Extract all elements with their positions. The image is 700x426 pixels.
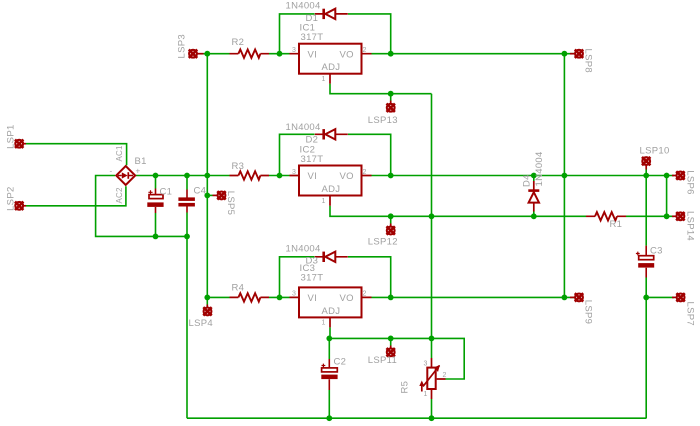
pad LSP14 bbox=[672, 212, 685, 220]
svg-text:-: - bbox=[110, 167, 113, 176]
svg-text:LSP10: LSP10 bbox=[640, 146, 670, 157]
svg-text:C2: C2 bbox=[334, 357, 347, 368]
svg-text:C4: C4 bbox=[194, 186, 207, 197]
pad LSP8 bbox=[570, 50, 583, 58]
svg-text:2: 2 bbox=[363, 47, 367, 54]
wire LSP3 row to R2 bbox=[204, 53, 230, 55]
capacitor C1 bbox=[147, 189, 163, 214]
wire C2 vertical bbox=[328, 338, 330, 418]
capacitor C3 bbox=[636, 246, 654, 278]
wire ground bottom rail bbox=[187, 417, 646, 419]
wire LSP1 to bridge AC1 top bbox=[26, 144, 127, 166]
svg-text:1N4004: 1N4004 bbox=[286, 244, 321, 255]
potentiometer R5 bbox=[419, 358, 445, 399]
svg-text:ADJ: ADJ bbox=[322, 184, 341, 195]
svg-text:VO: VO bbox=[340, 49, 354, 60]
svg-text:LSP9: LSP9 bbox=[583, 300, 594, 324]
svg-text:LSP3: LSP3 bbox=[177, 34, 188, 58]
diode D4 vertical bbox=[528, 181, 539, 212]
IC2 pin texts bbox=[292, 169, 367, 205]
wire C3 LSP10 vertical bbox=[645, 170, 647, 419]
svg-text:1N4004: 1N4004 bbox=[286, 122, 321, 133]
pad LSP2 bbox=[15, 202, 26, 210]
svg-text:VI: VI bbox=[308, 293, 318, 304]
svg-text:LSP12: LSP12 bbox=[368, 236, 398, 247]
svg-text:AC1: AC1 bbox=[115, 145, 124, 162]
wire output to R1 vertical x=666 bbox=[666, 176, 668, 217]
IC3 pin texts bbox=[292, 291, 367, 327]
svg-text:VO: VO bbox=[340, 293, 354, 304]
pad LSP12 bbox=[387, 224, 395, 235]
pad LSP1 bbox=[15, 140, 26, 148]
svg-text:1: 1 bbox=[424, 391, 428, 398]
pad LSP3 bbox=[189, 50, 204, 58]
svg-text:3: 3 bbox=[292, 169, 296, 176]
svg-text:LSP8: LSP8 bbox=[583, 49, 594, 73]
svg-text:VI: VI bbox=[308, 171, 318, 182]
op-amp regulator IC2 317T bbox=[290, 166, 372, 206]
svg-text:D4: D4 bbox=[522, 174, 533, 187]
svg-text:1: 1 bbox=[322, 198, 326, 205]
junction dot ADJ1/LSP13 bbox=[388, 91, 394, 97]
pad LSP9 bbox=[570, 293, 583, 301]
svg-text:3: 3 bbox=[424, 361, 428, 368]
pad LSP10 bbox=[642, 157, 650, 170]
wire D4 vertical bbox=[533, 176, 535, 217]
junction dots ADJ3 row bbox=[326, 336, 434, 342]
R5 pin numbers bbox=[424, 361, 447, 399]
pad LSP5 bbox=[213, 191, 226, 199]
svg-text:LSP1: LSP1 bbox=[6, 124, 17, 148]
pad LSP4 bbox=[203, 305, 211, 316]
svg-text:3: 3 bbox=[292, 47, 296, 54]
svg-text:LSP7: LSP7 bbox=[685, 302, 696, 326]
svg-text:LSP6: LSP6 bbox=[685, 170, 696, 194]
svg-text:C1: C1 bbox=[160, 187, 173, 198]
op-amp regulator IC1 317T bbox=[290, 44, 372, 84]
wire R4 row to IC3 VI bbox=[207, 296, 289, 298]
wire LSP4 stub bbox=[206, 297, 208, 304]
wire IC2 ADJ row bbox=[330, 206, 586, 217]
wire LSP12 stub bbox=[390, 216, 392, 223]
diode D1 bbox=[315, 9, 348, 19]
svg-text:VO: VO bbox=[340, 171, 354, 182]
svg-text:VI: VI bbox=[308, 49, 318, 60]
wire R5 bottom to ground rail bbox=[431, 399, 433, 418]
wire bridge minus to ground rail bbox=[96, 176, 187, 237]
svg-text:1N4004: 1N4004 bbox=[534, 151, 545, 186]
svg-text:R1: R1 bbox=[610, 219, 623, 230]
wire C1 vertical bbox=[155, 176, 157, 237]
svg-text:LSP14: LSP14 bbox=[685, 211, 696, 241]
svg-text:1: 1 bbox=[322, 76, 326, 83]
svg-text:B1: B1 bbox=[135, 156, 147, 167]
pad LSP7 bbox=[672, 293, 685, 301]
pad LSP6 bbox=[672, 171, 685, 179]
wire VI vertical bus x=207 bbox=[206, 54, 208, 298]
wire LSP13 stub bbox=[390, 94, 392, 101]
svg-text:R5: R5 bbox=[400, 381, 411, 394]
capacitor C4 bbox=[178, 190, 195, 213]
op-amp regulator IC3 317T bbox=[290, 287, 372, 327]
wire R2 to IC1 VI bbox=[269, 53, 290, 55]
capacitor C2 bbox=[321, 359, 337, 390]
wire D2 loop bbox=[280, 134, 391, 175]
wire ADJ bus vertical x=431 bbox=[431, 94, 433, 358]
diode D3 bbox=[315, 252, 348, 262]
svg-text:LSP2: LSP2 bbox=[6, 186, 17, 210]
svg-text:LSP11: LSP11 bbox=[368, 355, 397, 366]
wire LSP11 stub bbox=[390, 338, 392, 345]
svg-text:317T: 317T bbox=[301, 154, 324, 165]
resistor R3 bbox=[230, 171, 270, 179]
junction dots ADJ2 row bbox=[388, 213, 670, 219]
svg-text:ADJ: ADJ bbox=[322, 62, 341, 73]
pad LSP13 bbox=[387, 101, 395, 112]
svg-text:1: 1 bbox=[322, 320, 326, 327]
wire IC3 ADJ row bbox=[329, 327, 464, 379]
svg-text:1N4004: 1N4004 bbox=[286, 1, 321, 12]
svg-text:C3: C3 bbox=[650, 246, 663, 257]
wire IC2 VO row to LSP6 bbox=[372, 175, 675, 177]
IC1 pin texts bbox=[292, 47, 367, 83]
bridge rectifier B1 bbox=[116, 166, 135, 185]
svg-text:ADJ: ADJ bbox=[322, 306, 341, 317]
svg-text:LSP5: LSP5 bbox=[225, 191, 236, 215]
pad LSP11 bbox=[387, 346, 395, 357]
wire output vertical x=564 bbox=[563, 54, 565, 298]
svg-text:2: 2 bbox=[363, 169, 367, 176]
svg-text:2: 2 bbox=[363, 291, 367, 298]
junction dots row3 bbox=[204, 295, 649, 301]
svg-text:R4: R4 bbox=[232, 283, 245, 294]
wire IC1 ADJ row bbox=[330, 84, 432, 94]
wire R3 to IC2 VI bbox=[269, 175, 290, 177]
junction dot LSP5 bbox=[204, 193, 210, 199]
resistor R4 bbox=[230, 293, 270, 301]
svg-text:317T: 317T bbox=[301, 273, 324, 284]
svg-text:LSP13: LSP13 bbox=[368, 115, 398, 126]
svg-text:3: 3 bbox=[292, 291, 296, 298]
svg-text:317T: 317T bbox=[301, 32, 324, 43]
junction dots output row bbox=[153, 173, 670, 179]
resistor R2 bbox=[230, 50, 270, 58]
svg-text:AC2: AC2 bbox=[115, 187, 124, 204]
junction dots bottom rail bbox=[326, 415, 434, 421]
wire D1 loop bbox=[280, 14, 391, 54]
wire C4 vertical to bottom rail bbox=[186, 176, 188, 419]
svg-text:+: + bbox=[136, 167, 141, 176]
svg-text:R2: R2 bbox=[232, 37, 245, 48]
wire IC3 VO row to LSP9 bbox=[372, 296, 575, 298]
svg-text:LSP4: LSP4 bbox=[189, 318, 213, 329]
svg-text:R3: R3 bbox=[232, 161, 245, 172]
wire LSP2 to bridge AC2 bottom bbox=[26, 186, 126, 206]
wire D3 loop bbox=[280, 257, 391, 298]
wire bridge plus output row bbox=[136, 175, 230, 177]
junction dots row1 bbox=[204, 51, 567, 57]
wire IC1 VO row to LSP8 bbox=[372, 53, 575, 55]
wire C3 junction to LSP7 bbox=[646, 296, 674, 298]
resistor R1 bbox=[586, 212, 626, 220]
diode D2 bbox=[315, 129, 348, 139]
wire LSP5 stub bbox=[207, 194, 212, 196]
junction dots ground rail upper bbox=[153, 234, 190, 240]
wire R1 right to LSP14 junction bbox=[626, 215, 674, 217]
svg-text:2: 2 bbox=[443, 372, 447, 379]
